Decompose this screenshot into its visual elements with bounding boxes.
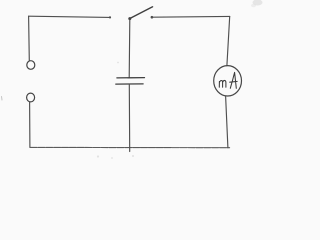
- scan speck left edge: [1, 97, 4, 101]
- wire end blob at switch gap: [109, 16, 111, 18]
- wire: middle branch lower (capacitor to bottom wire): [128, 84, 130, 151]
- capacitor C top plate: [117, 77, 145, 79]
- milliammeter body (circle): [214, 66, 242, 96]
- terminal T1 (open circle): [27, 61, 35, 70]
- wire: right vertical upper (corner to meter): [227, 16, 230, 65]
- scan smudge top-right: [251, 0, 263, 7]
- wire: middle branch upper (switch to capacitor): [128, 19, 131, 78]
- wire: left vertical lower segment: [29, 102, 31, 148]
- switch S blade (open): [130, 7, 153, 19]
- scan specks bottom: [97, 62, 134, 159]
- wire: top-right horizontal segment: [152, 15, 230, 18]
- capacitor C bottom plate: [116, 83, 143, 85]
- milliammeter label mA: letter A: [230, 72, 238, 88]
- wire: bottom horizontal: [30, 146, 230, 148]
- wire: right vertical lower (meter to corner): [226, 96, 228, 148]
- wire: top-left horizontal segment: [29, 16, 111, 17]
- switch S pivot junction: [128, 17, 131, 20]
- milliammeter label mA: letter m: [219, 80, 226, 87]
- terminal T2 (open circle): [27, 93, 35, 102]
- wire: left vertical upper segment: [28, 16, 31, 61]
- switch S contact dot: [151, 16, 154, 19]
